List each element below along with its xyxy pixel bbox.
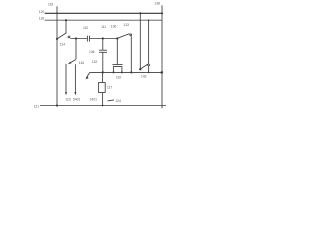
wire arrow line x66 [65, 64, 67, 93]
wire box top lead [102, 72, 104, 82]
wire A horizontal right part [90, 38, 118, 40]
wire drop from S2 contact [130, 36, 132, 73]
wire box bottom lead [102, 93, 104, 106]
switch S2 contact circle [130, 34, 132, 36]
svg-text:1401: 1401 [90, 97, 98, 101]
switch S1 blade (114) [57, 33, 66, 39]
switch S3 blade (142) [141, 64, 148, 69]
capacitor C-series plate 2 [89, 36, 91, 42]
wire B bottom horizontal [90, 71, 163, 73]
element crystal bracket [113, 67, 122, 73]
switch S3 contact circle [148, 64, 150, 66]
svg-text:130: 130 [111, 25, 117, 29]
node element left leg / wire B [113, 71, 115, 73]
svg-text:138: 138 [154, 2, 160, 6]
svg-text:111: 111 [101, 25, 106, 29]
wire drop x76 upper to switch 116 [75, 39, 77, 60]
node S2 drop / wire B [130, 71, 132, 73]
svg-text:5401: 5401 [73, 97, 81, 101]
arrowhead wire B blade [86, 76, 89, 79]
resistor box 117 [99, 83, 106, 93]
svg-text:142: 142 [141, 75, 147, 79]
node rail2 / x66 drop [65, 19, 67, 21]
capacitor C-shunt lead upper [102, 39, 104, 50]
node rail1 / right border [161, 12, 163, 14]
switch S2 blade [117, 34, 129, 39]
node rail1 / x140 junction [139, 12, 141, 14]
node element right leg / wire B [121, 71, 123, 73]
element crystal top bar [112, 64, 122, 66]
wire right border vertical [161, 5, 163, 108]
node left vertical / bottom rail [56, 104, 58, 106]
node wire A / x76 [75, 37, 77, 39]
svg-text:120: 120 [39, 10, 45, 14]
wire rail1 top [45, 12, 163, 14]
capacitor C-series plate 1 [86, 36, 88, 42]
wire A horizontal left part [70, 38, 87, 40]
node wire A / shunt cap [102, 37, 104, 39]
svg-text:132: 132 [92, 60, 98, 64]
leader line to label 124 [108, 100, 115, 101]
svg-text:124: 124 [115, 99, 121, 103]
capacitor C-shunt lead lower [102, 52, 104, 72]
arrowhead switch 116 [68, 62, 72, 65]
wire drop x140 from rail1 [139, 13, 141, 69]
svg-text:110: 110 [83, 26, 88, 30]
svg-text:118: 118 [39, 17, 44, 21]
wire from S3 contact down to wire B [148, 66, 150, 73]
node rail1 / left vertical [56, 12, 58, 14]
wire arrow line x75 [74, 64, 76, 92]
arrowhead x66 line [65, 92, 67, 95]
wire rail2 second [45, 19, 163, 21]
svg-text:123: 123 [65, 97, 71, 101]
node rail2 / x148 drop [148, 19, 150, 21]
capacitor C-shunt plate top [99, 49, 107, 51]
wire drop from rail2 to switch S1 [65, 20, 67, 33]
capacitor C-shunt plate bottom [99, 51, 107, 53]
svg-text:117: 117 [107, 86, 112, 90]
svg-text:136: 136 [89, 50, 95, 54]
switch S1 contact circle [68, 36, 70, 38]
node box lead / bottom rail [102, 105, 104, 107]
wire bottom rail [40, 105, 166, 107]
node wire A / switch S2 pivot [116, 37, 118, 39]
wire drop x148 from rail2 to contact [148, 20, 150, 64]
svg-text:116: 116 [79, 61, 84, 65]
wire left vertical [56, 6, 58, 105]
node x148 / wire B [148, 72, 150, 74]
svg-text:110: 110 [116, 76, 121, 80]
wire drop to element 134 [116, 39, 118, 65]
svg-text:114: 114 [60, 42, 65, 46]
svg-text:119: 119 [48, 2, 53, 6]
switch 116 blade with arrow [70, 60, 76, 64]
node switch S1 pivot on left vertical [56, 38, 58, 40]
svg-text:121: 121 [34, 104, 40, 108]
node switch S3 pivot [139, 68, 141, 70]
arrowhead x75 line [74, 92, 76, 95]
node shunt cap / wire B [102, 71, 104, 73]
switch blade at wire B left end [86, 73, 89, 78]
node wire B / right border [161, 71, 164, 74]
svg-text:113: 113 [124, 23, 129, 27]
